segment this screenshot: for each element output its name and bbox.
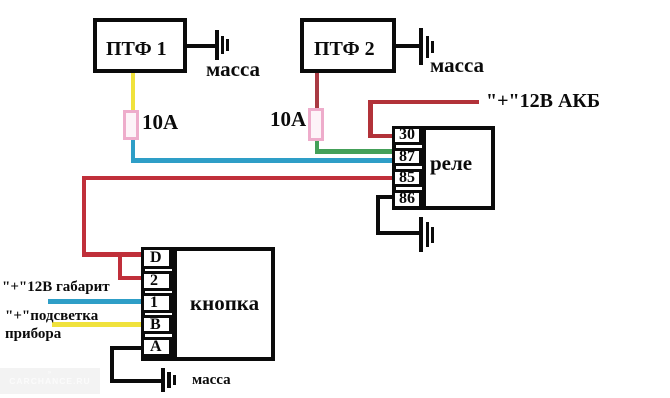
label: 10A fuse 2	[270, 107, 306, 132]
relay pin 86	[392, 190, 422, 210]
ground symbol for button	[161, 368, 165, 393]
wire: black from button pin A left	[110, 346, 145, 350]
wire: crimson vertical down to button	[82, 176, 87, 257]
button (knopka) box S1	[141, 247, 275, 361]
wire: blue +12V parking light into pin 1	[48, 299, 145, 304]
wire: yellow from PTF1 to fuse F1	[131, 71, 135, 112]
wire: black from PTF2 to ground	[394, 44, 420, 48]
wire: black horizontal to relay ground	[376, 231, 421, 235]
fuse F2 10A	[308, 108, 325, 142]
wire: dark red from PTF2 to fuse F2	[315, 71, 319, 109]
wire: black from PTF1 to ground	[185, 44, 216, 48]
watermark	[0, 368, 100, 394]
wire: yellow instrument backlight into pin B	[52, 322, 145, 327]
button divider	[172, 247, 177, 361]
fog lamp PTF2 box	[300, 18, 396, 73]
label: knopka (button)	[190, 291, 259, 316]
wire: black from relay pin 86 left	[376, 195, 396, 199]
button pin 1	[141, 293, 172, 313]
label: + instrument backlight line 1	[5, 308, 98, 325]
label: +12V battery	[486, 90, 600, 113]
wire: blue horizontal to relay pin 87	[131, 158, 397, 163]
ground symbol for PTF2	[419, 28, 423, 65]
wire: blue from fuse F1 down	[131, 138, 135, 162]
fog lamp PTF1 box	[93, 18, 187, 73]
wire: red +12V battery vertical drop	[368, 100, 373, 139]
label: +12V parking lights	[2, 279, 110, 296]
wire: red +12V battery horizontal	[368, 100, 479, 105]
button pin A	[141, 337, 172, 357]
wire: crimson horizontal into pin D	[82, 252, 146, 257]
ground symbol for PTF1	[215, 30, 219, 60]
ground symbol for relay	[419, 217, 423, 252]
label: massa (ground) button	[192, 372, 231, 389]
fuse F1 10A	[123, 110, 140, 140]
button pin 2	[141, 271, 172, 291]
relay pin 87	[392, 148, 422, 166]
button pin B	[141, 315, 172, 334]
wire: black vertical down from pin 86	[376, 195, 380, 235]
label: massa (ground) PTF2	[430, 53, 484, 78]
relay pin 85	[392, 169, 422, 187]
label: massa (ground) PTF1	[206, 57, 260, 82]
wire: crimson branch horizontal into pin 2	[118, 276, 146, 281]
wire: black vertical down from pin A	[110, 346, 114, 383]
relay divider	[422, 126, 426, 210]
wire: green horizontal to relay pin 87	[315, 149, 397, 154]
wire: crimson from relay pin 85 going left	[82, 176, 397, 181]
wire: black horizontal to button ground	[110, 379, 162, 383]
label: 10A fuse 1	[142, 110, 178, 135]
relay pin 30	[392, 126, 422, 145]
button pin D	[141, 247, 172, 269]
wire: red into relay pin 30	[368, 134, 396, 139]
relay box U1	[392, 126, 495, 210]
label: rele (relay)	[430, 151, 472, 176]
wire: crimson branch vertical to pin 2	[118, 252, 123, 280]
label: instrument backlight line 2	[5, 326, 61, 343]
wire: green from fuse F2 down	[315, 139, 319, 153]
